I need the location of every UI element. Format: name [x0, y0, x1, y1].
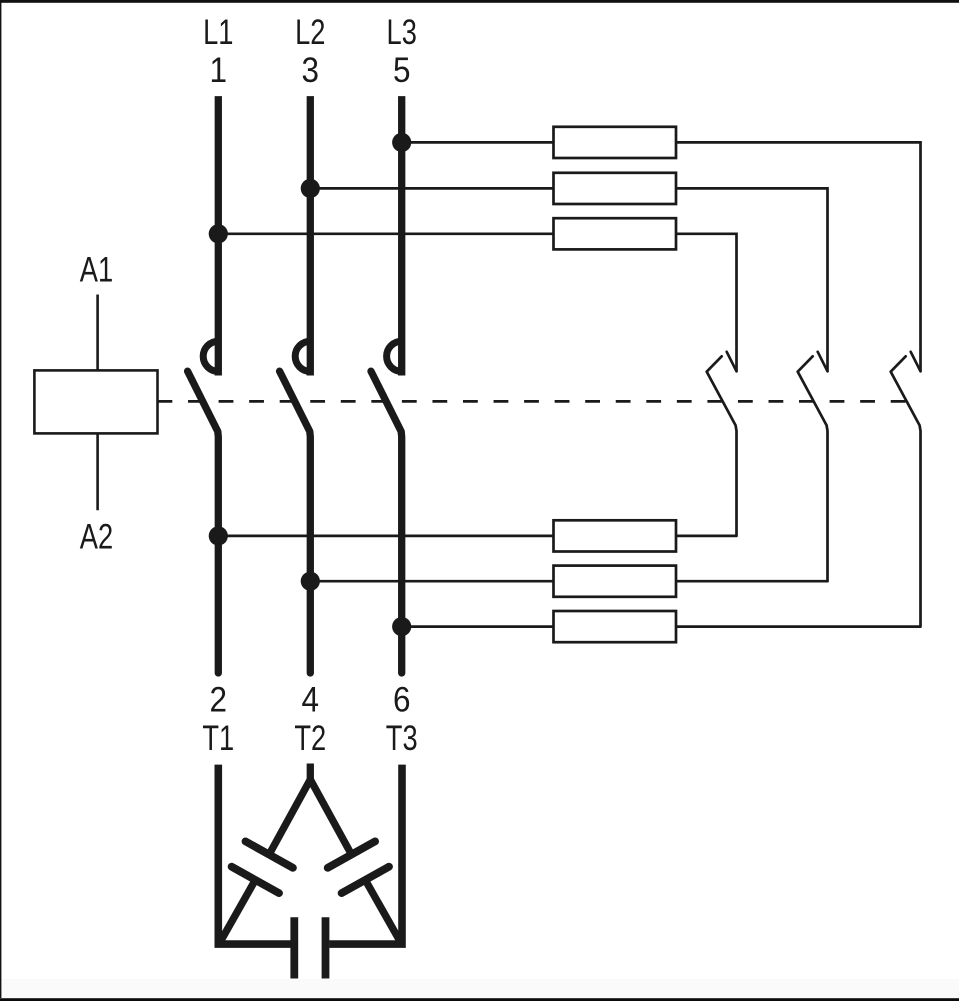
resistor R2: [554, 173, 677, 204]
wire L1 node to resistor R3: [218, 232, 553, 235]
border frame left: [0, 0, 1, 998]
wire T2 node to resistor R5: [310, 580, 553, 583]
aux contact 3 fixed barb: [911, 352, 921, 372]
wire pole 2 upper: [307, 96, 314, 375]
resistor R1: [554, 127, 677, 158]
wire resistor R3 to aux contact 1 top: [676, 234, 737, 371]
node junction T3 lower: [392, 617, 411, 636]
node junction T2 lower: [301, 572, 320, 591]
resistor R6: [554, 611, 677, 642]
svg-text:2: 2: [210, 681, 228, 720]
svg-text:T3: T3: [386, 719, 418, 758]
capacitor C3 plate B: [322, 917, 330, 978]
svg-text:L2: L2: [295, 13, 325, 52]
capacitor C2 plate B: [342, 867, 389, 893]
delta left side lower segment: [220, 880, 255, 942]
wire aux contact 3 bottom to resistor R6: [676, 625, 921, 628]
wire A2 lead: [96, 433, 99, 510]
main contact pole 3 blade: [371, 371, 402, 673]
resistor R5: [554, 566, 677, 597]
dashed actuation line: [158, 400, 906, 403]
border frame bottom: [0, 998, 959, 1001]
svg-text:4: 4: [302, 681, 320, 720]
aux contact 1 fixed barb: [727, 352, 737, 372]
svg-text:A1: A1: [80, 250, 113, 289]
wire L3 node to resistor R1: [402, 141, 554, 144]
aux contact 1 blade: [707, 356, 737, 536]
aux contact 2 fixed barb: [818, 352, 828, 372]
svg-text:T1: T1: [202, 719, 234, 758]
main contact pole 3 fixed hook: [387, 341, 402, 371]
wire T3 node to resistor R6: [402, 625, 554, 628]
node junction T1 lower: [209, 526, 228, 545]
wire pole 1 upper: [215, 96, 222, 375]
svg-text:1: 1: [210, 51, 228, 90]
wire A1 lead: [96, 295, 99, 371]
delta left side upper segment: [269, 780, 310, 855]
wire resistor R1 to aux contact 3 top: [676, 142, 921, 371]
aux contact 2 blade: [798, 356, 828, 581]
contactor coil K1: [34, 370, 157, 433]
main contact pole 1 blade: [188, 371, 219, 673]
node junction L3 upper: [392, 133, 411, 152]
border frame top: [0, 0, 959, 3]
delta right side upper segment: [310, 780, 351, 855]
capacitor C3 plate A: [290, 917, 298, 978]
capacitor bank lead T2 stub: [307, 764, 314, 784]
capacitor C1 plate B: [232, 867, 279, 893]
wire L2 node to resistor R2: [310, 187, 553, 190]
wire aux contact 2 bottom to resistor R5: [676, 580, 828, 583]
capacitor C2 plate A: [328, 841, 375, 867]
light band above bottom border: [0, 979, 959, 998]
delta right side lower segment: [365, 880, 400, 942]
main contact pole 2 fixed hook: [295, 341, 310, 371]
resistor R3: [554, 218, 677, 249]
svg-text:L3: L3: [387, 13, 417, 52]
wire resistor R2 to aux contact 2 top: [676, 188, 828, 371]
wire aux contact 1 bottom to resistor R4: [676, 535, 737, 538]
wire T1 node to resistor R4: [218, 535, 553, 538]
svg-text:A2: A2: [80, 517, 113, 556]
svg-text:5: 5: [393, 51, 411, 90]
capacitor bank lead T1 and bottom left wire: [218, 765, 290, 945]
main contact pole 1 fixed hook: [203, 341, 218, 371]
aux contact 3 blade: [891, 356, 921, 626]
capacitor C1 plate A: [246, 841, 293, 867]
node junction L1 upper: [209, 224, 228, 243]
node junction L2 upper: [301, 179, 320, 198]
svg-text:6: 6: [393, 681, 411, 720]
resistor R4: [554, 520, 677, 551]
svg-text:T2: T2: [294, 719, 326, 758]
wire pole 3 upper: [398, 96, 405, 375]
capacitor bank lead T3 and bottom right wire: [329, 765, 402, 945]
main contact pole 2 blade: [280, 371, 311, 673]
svg-text:L1: L1: [203, 13, 233, 52]
svg-text:3: 3: [302, 51, 320, 90]
